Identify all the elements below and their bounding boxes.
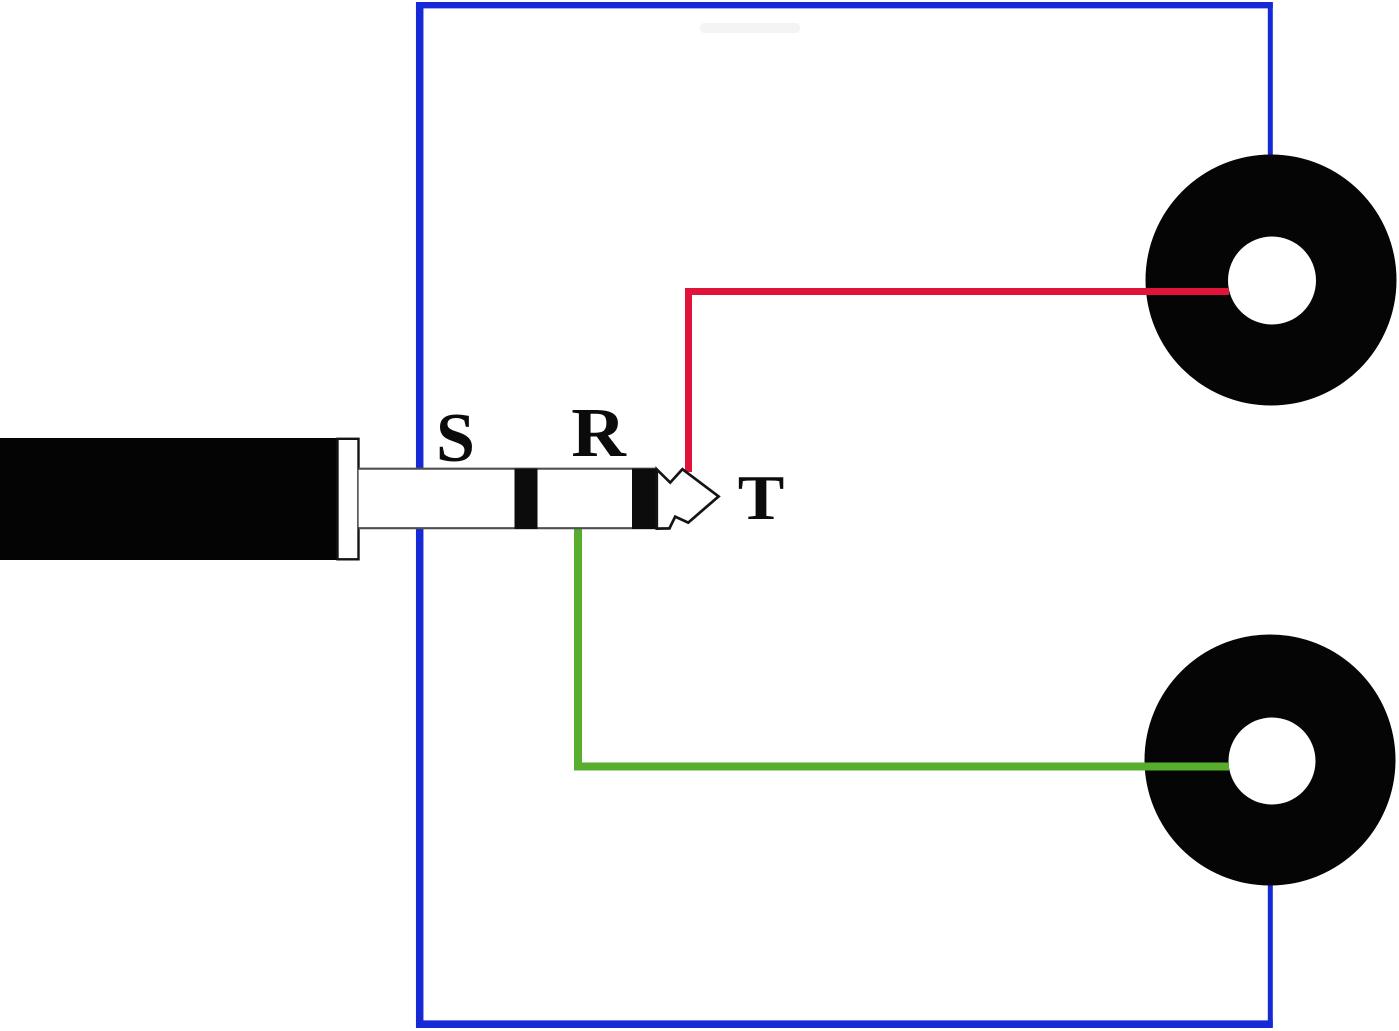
wire: blue loop, right vertical from bottom speaker — [1268, 880, 1273, 1027]
plug shaft (sleeve section) — [359, 468, 658, 529]
insulator band 2 — [632, 469, 657, 529]
wire: blue loop, top horizontal segment — [416, 2, 1273, 8]
speaker driver, top (right channel) — [1146, 155, 1397, 406]
insulator band 1 — [515, 469, 538, 529]
faint watermark smudge — [700, 23, 800, 33]
plug collar — [338, 439, 359, 560]
svg-text:T: T — [738, 464, 785, 533]
shaft bottom edge — [359, 527, 672, 529]
shaft top edge — [359, 468, 658, 470]
plug tip (arrow) — [657, 469, 719, 528]
wire: red tip signal (tip to top speaker) — [689, 292, 1230, 473]
svg-text:S: S — [436, 400, 475, 477]
wire: blue loop, bottom horizontal segment — [416, 1020, 1273, 1028]
svg-text:R: R — [571, 394, 627, 472]
speaker driver, bottom (left channel) — [1145, 635, 1396, 886]
wire: blue sleeve/ground loop, left vertical segment — [416, 2, 424, 1028]
wire: blue loop, right vertical to top speaker — [1268, 3, 1273, 164]
plug body (cable boot) — [0, 438, 337, 560]
wire: green ring signal (ring to bottom speaker) — [578, 527, 1229, 767]
